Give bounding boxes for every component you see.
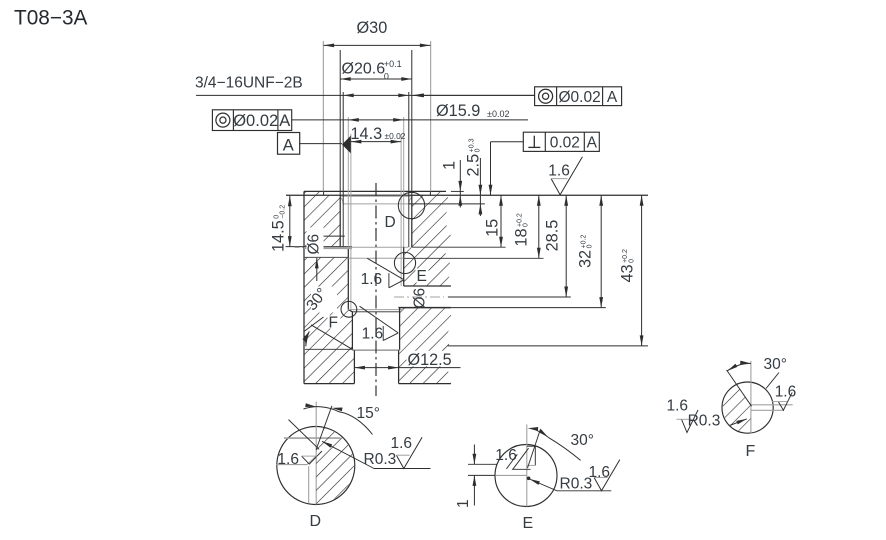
svg-text:Ø12.5: Ø12.5 xyxy=(408,351,452,369)
svg-text:+0.1: +0.1 xyxy=(384,59,402,69)
svg-text:A: A xyxy=(587,135,598,152)
svg-text:Ø6: Ø6 xyxy=(412,288,429,309)
svg-text:D: D xyxy=(310,513,322,530)
svg-text:43: 43 xyxy=(618,264,636,282)
svg-text:F: F xyxy=(329,315,338,332)
svg-text:0: 0 xyxy=(587,244,594,248)
svg-text:0: 0 xyxy=(523,223,530,227)
svg-text:Ø30: Ø30 xyxy=(357,19,388,37)
svg-text:1.6: 1.6 xyxy=(277,451,299,468)
svg-text:32: 32 xyxy=(577,250,595,268)
svg-text:A: A xyxy=(279,112,290,130)
svg-text:Ø15.9: Ø15.9 xyxy=(436,102,480,120)
svg-text:18: 18 xyxy=(513,228,531,246)
svg-text:30°: 30° xyxy=(571,432,594,449)
svg-text:1.6: 1.6 xyxy=(495,447,517,464)
svg-text:2.5: 2.5 xyxy=(465,154,483,177)
svg-text:T08−3A: T08−3A xyxy=(14,7,88,30)
svg-text:15°: 15° xyxy=(357,405,380,422)
svg-text:30°: 30° xyxy=(764,356,787,373)
svg-text:A: A xyxy=(283,137,294,155)
svg-text:14.5: 14.5 xyxy=(270,220,288,252)
svg-text:R0.3: R0.3 xyxy=(688,413,721,430)
svg-text:1.6: 1.6 xyxy=(361,271,383,288)
svg-text:R0.3: R0.3 xyxy=(560,476,593,493)
svg-text:1.6: 1.6 xyxy=(667,398,689,415)
svg-text:E: E xyxy=(523,515,534,532)
svg-text:±0.02: ±0.02 xyxy=(385,131,406,141)
svg-text:A: A xyxy=(607,89,618,106)
svg-text:0: 0 xyxy=(384,72,389,82)
svg-text:E: E xyxy=(417,268,427,285)
svg-text:Ø20.6: Ø20.6 xyxy=(342,61,386,78)
svg-text:1.6: 1.6 xyxy=(362,326,384,343)
svg-text:−0.2: −0.2 xyxy=(280,205,287,219)
svg-text:1: 1 xyxy=(455,499,472,508)
svg-text:Ø0.02: Ø0.02 xyxy=(558,89,600,106)
svg-text:±0.02: ±0.02 xyxy=(487,109,509,119)
svg-text:1.6: 1.6 xyxy=(589,464,611,481)
svg-text:0: 0 xyxy=(628,259,635,263)
svg-text:1.6: 1.6 xyxy=(775,384,797,401)
svg-text:14.3: 14.3 xyxy=(351,125,383,143)
svg-text:3/4−16UNF−2B: 3/4−16UNF−2B xyxy=(195,75,303,92)
svg-text:R0.3: R0.3 xyxy=(364,451,397,468)
svg-text:1.6: 1.6 xyxy=(391,435,413,452)
svg-text:1.6: 1.6 xyxy=(548,162,570,179)
svg-text:28.5: 28.5 xyxy=(544,220,562,252)
svg-text:Ø0.02: Ø0.02 xyxy=(233,112,278,130)
svg-text:0: 0 xyxy=(475,148,482,152)
svg-text:D: D xyxy=(385,214,396,231)
svg-text:1: 1 xyxy=(441,161,459,170)
svg-text:Ø6: Ø6 xyxy=(305,234,322,255)
svg-text:F: F xyxy=(746,443,756,460)
svg-text:0.02: 0.02 xyxy=(550,135,580,152)
svg-text:15: 15 xyxy=(483,219,501,237)
